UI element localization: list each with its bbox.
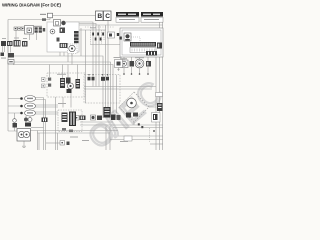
mid cluster motor circle [68,83,74,89]
bottom text labels [70,137,128,143]
bottom right small box [124,136,132,141]
stator connector 1 [1,41,6,46]
joint side marks [117,33,122,40]
main connector striped [14,40,21,47]
joint connector dots row2 [95,38,102,41]
junction small marks [62,128,73,132]
engine block outline [47,22,79,52]
wire trim motor stub [134,107,156,125]
trim row comp 2 [91,115,96,120]
wire engine output line 2 [66,24,96,87]
wire mid bus 3 [13,65,113,114]
relay oval 2 [20,103,35,109]
ignition coil box [54,20,61,27]
wire gauge feed 4 [147,57,149,74]
wire connector pins bottom [44,122,46,150]
mid cluster relay block [66,78,71,84]
mid cluster in connector 2 [42,84,46,88]
color code label box 2 [141,17,163,22]
charge coil block [60,28,66,34]
bottom dark mark [67,142,70,146]
mid cluster block 2 [48,84,51,87]
connector row labels [2,38,27,40]
wire right edge bus 3 [162,22,164,150]
engine connector striped [60,43,68,48]
remote lower connector [146,51,157,56]
wire top rail [8,19,50,21]
wire harness dashes [85,26,115,28]
trim relay block b [133,113,138,117]
thermo gauge circle [68,44,78,56]
mid cluster block 1 [48,78,51,81]
wire joint top bus [79,29,106,31]
bottom right tick b [141,126,143,128]
aux connector striped [22,41,28,47]
trim relay block a [126,113,131,118]
harness joint d [106,74,109,80]
wire gauge feed 1 [123,57,125,74]
mid cluster in connector 1 [42,78,46,82]
gauge block 1 [130,61,135,67]
fuse symbol box C [104,11,112,21]
wire bottom small links [46,142,60,144]
bottom right joint dot [153,130,155,132]
starter motor box [17,129,31,142]
svg-text:WIRING DIAGRAM (For DCE): WIRING DIAGRAM (For DCE) [2,2,61,7]
mid cluster label [57,74,66,75]
joint side box [108,32,115,38]
bottom right tick a [138,123,140,125]
component on rail [42,18,46,21]
trim dashed diamond [119,92,149,122]
switch dashed link [131,37,140,42]
svg-text:C: C [105,13,110,20]
gauge harness dashed box [84,75,120,104]
spark plug column 4 [74,41,79,44]
pulser coil ring [50,29,55,34]
remote receptacle outline [130,48,156,53]
remote side comp [157,43,162,49]
remote control box inner [122,30,161,55]
CDI unit block 2 [39,27,42,32]
wire bus to cluster drops [50,65,78,80]
gauge block 2 [146,61,151,67]
wire center box drops [56,97,58,150]
wire harness bus 2 [84,88,152,90]
tachometer circle [135,59,144,68]
trailer gauge box [115,60,123,72]
wire relay block pins [26,116,30,118]
svg-text:B: B [97,13,102,20]
CDI unit block 3 [43,28,46,32]
mid cluster striped block right [76,79,81,89]
wire harness bus 1 [84,86,156,88]
wire bottom right short [150,143,163,145]
trim row comp 3 [97,116,102,121]
wire mid bus 2 [13,62,111,113]
starter relay [24,118,32,127]
mid cluster dashed box [47,73,85,97]
wire trim bus 1 [80,121,113,123]
remote connector striped bar [130,42,156,47]
wire relay3 inputs [8,112,58,114]
rectifier box [25,26,34,35]
mid cluster dark block [67,89,72,93]
right edge text box [156,93,163,97]
wire harness left drop [85,30,87,103]
gauge labels [120,57,144,59]
wire right edge bus 1 [155,28,157,150]
wire gauge feed 2 [131,57,133,74]
trim vertical connector [104,107,111,118]
wire cluster drops [63,92,71,108]
wire joint bottom link [90,44,120,46]
junction box label [58,103,66,104]
lighting coil connector b [18,27,21,30]
fuse symbol box B [96,11,104,21]
spark plug column 2 [74,34,79,37]
center junction box [58,110,82,132]
wire starter ground [22,141,26,147]
remote control box outer [120,28,163,57]
wire bottom right bus 2 [110,139,163,141]
color code label box 1 [116,17,139,22]
junction side box [75,116,80,121]
wire top rail jog [50,16,96,20]
relay pair connector [42,118,48,123]
wire left bus vertical [7,20,9,132]
wire bottom mid verticals [106,126,110,150]
coil dark comp [61,21,65,25]
joint label [90,27,96,28]
wire gauge feed 3 [139,57,141,74]
wire right edge bus 2 [159,22,161,150]
rectifier regulator [8,53,14,58]
lighting coil connector c [21,27,24,30]
wire battery drop 1 [105,25,107,107]
wire left connector pins [3,46,11,53]
trailer gauge label [114,57,122,58]
spark plug column 1 [74,31,79,34]
neutral switch [13,119,18,128]
wire relay2 inputs [8,105,58,107]
trim row comp 4 [111,115,116,121]
bottom right dashed stub [149,128,151,142]
color code bar 2 [141,12,163,17]
CDI unit label [34,26,42,27]
junction dark block [69,112,76,127]
wire starter relay link [31,127,44,129]
wire relay drop pair [44,98,46,118]
wire engine bottom stubs [60,52,72,65]
wire component-to-connector stubs [16,30,37,40]
trim row comp 5 [117,115,121,120]
wire neutral switch stub [14,113,16,131]
wire trim bus 3 [113,127,163,129]
joint connector dots row1 [92,33,104,36]
wire relay1 inputs [8,98,46,100]
fuse box [8,60,14,65]
relay oval 1 [20,96,35,102]
wire bottom verticals [38,131,40,151]
trim row comp 1 [80,116,86,121]
fuse holder blob [1,53,5,57]
spark plug column 3 [74,37,79,40]
harness joint a [88,74,91,80]
wire trim bus 2 [80,124,163,126]
harness joint c [101,74,105,81]
junction connector striped [62,113,68,123]
lighting coil connector a [14,27,17,30]
stator connector 2 [7,41,13,46]
main switch [124,33,131,41]
relay oval 3 [20,110,35,116]
sensor blob [57,38,60,42]
gauge pilot lamp [120,60,128,68]
color code bar 1 [116,12,139,17]
wire starter bus [8,130,118,133]
wire engine output line 3 [98,25,100,87]
bottom tiny box [60,141,65,146]
wire battery drop 2 [107,21,109,108]
label left [1,58,6,59]
wire bottom right bus 1 [118,135,163,137]
right connector box [152,113,161,123]
mid cluster striped connector [60,78,65,88]
right edge connector [157,103,163,111]
wire right feed [116,75,118,113]
harness joint b [92,74,95,80]
wire bottom bus 2 [37,132,110,134]
wire engine output line 1 [66,22,93,87]
wire mid bus 1 [13,56,103,118]
wire engine box right drop [80,28,82,56]
gauge ground dots [123,73,149,75]
CDI unit block 1 [35,27,38,32]
label box T1 [48,13,53,18]
wire main top bus [66,24,163,26]
label TO TACHO [40,14,46,15]
wire joint stubs [91,30,105,44]
trim motor [127,98,137,108]
